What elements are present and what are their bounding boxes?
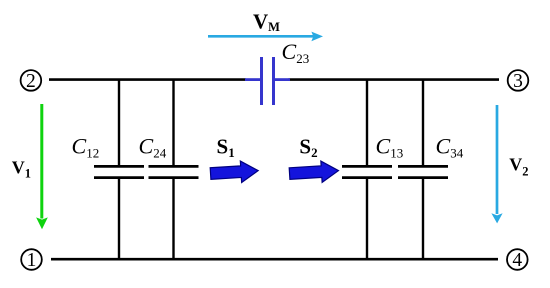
wire C34 branch lower — [422, 178, 424, 261]
arrow V1 (green, points down on left) — [36, 104, 48, 229]
arrow S2 (blue block arrow) — [289, 160, 339, 184]
node 1 (bottom-left terminal) — [21, 249, 42, 271]
svg-text:1: 1 — [27, 250, 37, 271]
node 4 (bottom-right terminal) — [507, 249, 528, 271]
node 2 (top-left terminal) — [21, 70, 42, 92]
svg-text:C23: C23 — [282, 39, 310, 66]
wire top-right segment (C23 right stub to node 3) — [289, 78, 500, 81]
svg-text:C12: C12 — [72, 133, 100, 160]
wire C13 branch upper — [366, 79, 368, 167]
wire C13 branch lower — [366, 178, 368, 261]
wire C12 branch lower — [118, 178, 120, 261]
wire top-left segment (node 2 to C23 left stub) — [49, 78, 246, 81]
svg-text:4: 4 — [512, 250, 522, 271]
svg-text:V1: V1 — [12, 157, 31, 180]
svg-text:C24: C24 — [139, 133, 167, 160]
capacitor C12 — [94, 166, 144, 177]
svg-text:C13: C13 — [376, 133, 404, 160]
svg-text:V2: V2 — [509, 154, 528, 178]
wire bottom (node 1 to node 4) — [51, 258, 498, 261]
svg-text:C34: C34 — [436, 133, 464, 160]
node 3 (top-right terminal) — [508, 70, 529, 92]
capacitor C24 — [149, 166, 199, 177]
wire C24 branch upper — [172, 79, 174, 167]
svg-text:S1: S1 — [217, 134, 235, 159]
svg-text:2: 2 — [26, 71, 36, 92]
svg-text:VM: VM — [253, 10, 280, 35]
arrow S1 (blue block arrow) — [210, 160, 259, 184]
wire C34 branch upper — [422, 79, 424, 167]
capacitor C23 (blue, series in top wire) — [245, 57, 290, 105]
capacitor C34 — [398, 166, 448, 177]
arrow VM (cyan, points right above C23) — [208, 32, 323, 42]
arrow V2 (cyan, points down on right) — [491, 105, 502, 223]
svg-text:3: 3 — [513, 71, 523, 92]
svg-text:S2: S2 — [299, 134, 317, 159]
capacitor C13 — [342, 166, 392, 177]
wire C24 branch lower — [172, 178, 174, 261]
wire C12 branch upper — [118, 79, 120, 167]
